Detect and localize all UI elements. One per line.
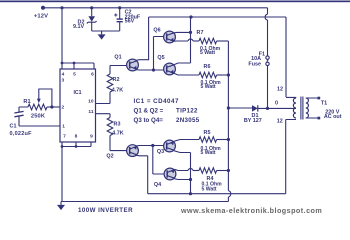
svg-text:+12V: +12V (34, 14, 48, 20)
svg-text:Q3 to Q4=: Q3 to Q4= (134, 117, 164, 124)
svg-text:100W INVERTER: 100W INVERTER (78, 207, 133, 214)
svg-text:8: 8 (75, 133, 78, 139)
svg-text:11: 11 (88, 109, 93, 115)
svg-text:R7: R7 (197, 30, 204, 36)
svg-text:Fuse: Fuse (248, 62, 261, 68)
svg-text:5 Watt: 5 Watt (201, 84, 216, 90)
svg-text:4.7K: 4.7K (112, 88, 123, 94)
svg-text:0,022uF: 0,022uF (10, 131, 33, 137)
svg-text:www.skema-elektronik.blogspot.: www.skema-elektronik.blogspot.com (180, 206, 322, 215)
svg-text:2N3055: 2N3055 (176, 117, 200, 124)
svg-text:250K: 250K (31, 113, 46, 119)
svg-text:4.7K: 4.7K (112, 131, 123, 137)
svg-text:R1: R1 (23, 99, 30, 105)
svg-text:R5: R5 (204, 130, 211, 136)
svg-text:0: 0 (275, 101, 278, 107)
svg-text:5: 5 (73, 71, 76, 77)
svg-text:12: 12 (277, 87, 283, 93)
svg-text:4: 4 (62, 71, 65, 77)
svg-text:3: 3 (61, 78, 64, 84)
svg-text:T1: T1 (321, 100, 327, 106)
svg-text:Q1: Q1 (114, 55, 121, 61)
svg-text:7: 7 (63, 133, 66, 139)
svg-text:2: 2 (61, 105, 64, 111)
svg-text:Q2: Q2 (106, 154, 113, 160)
svg-text:Q5: Q5 (157, 55, 164, 61)
svg-text:1: 1 (62, 123, 65, 129)
svg-text:5 Watt: 5 Watt (200, 50, 215, 56)
svg-text:9: 9 (90, 133, 93, 139)
svg-text:10: 10 (88, 99, 94, 105)
svg-text:Q3: Q3 (157, 149, 164, 155)
svg-text:IC1 = CD4047: IC1 = CD4047 (134, 98, 179, 105)
svg-text:R3: R3 (114, 122, 121, 128)
svg-text:R2: R2 (113, 77, 120, 83)
svg-text:AC out: AC out (324, 114, 342, 120)
svg-text:R6: R6 (204, 64, 211, 70)
svg-text:5 Watt: 5 Watt (201, 150, 216, 156)
svg-text:TIP122: TIP122 (176, 107, 198, 114)
svg-text:12: 12 (277, 119, 283, 125)
svg-text:6: 6 (91, 71, 94, 77)
svg-text:Q1 & Q2 =: Q1 & Q2 = (134, 107, 164, 114)
svg-text:5 Watt: 5 Watt (202, 186, 217, 192)
svg-text:IC1: IC1 (73, 90, 81, 96)
svg-text:9.1V: 9.1V (73, 24, 84, 30)
svg-text:Q6: Q6 (153, 28, 160, 34)
svg-text:56V: 56V (125, 19, 135, 25)
svg-text:Q4: Q4 (154, 182, 161, 188)
svg-text:BY 127: BY 127 (244, 118, 262, 124)
svg-text:C1: C1 (10, 124, 17, 130)
